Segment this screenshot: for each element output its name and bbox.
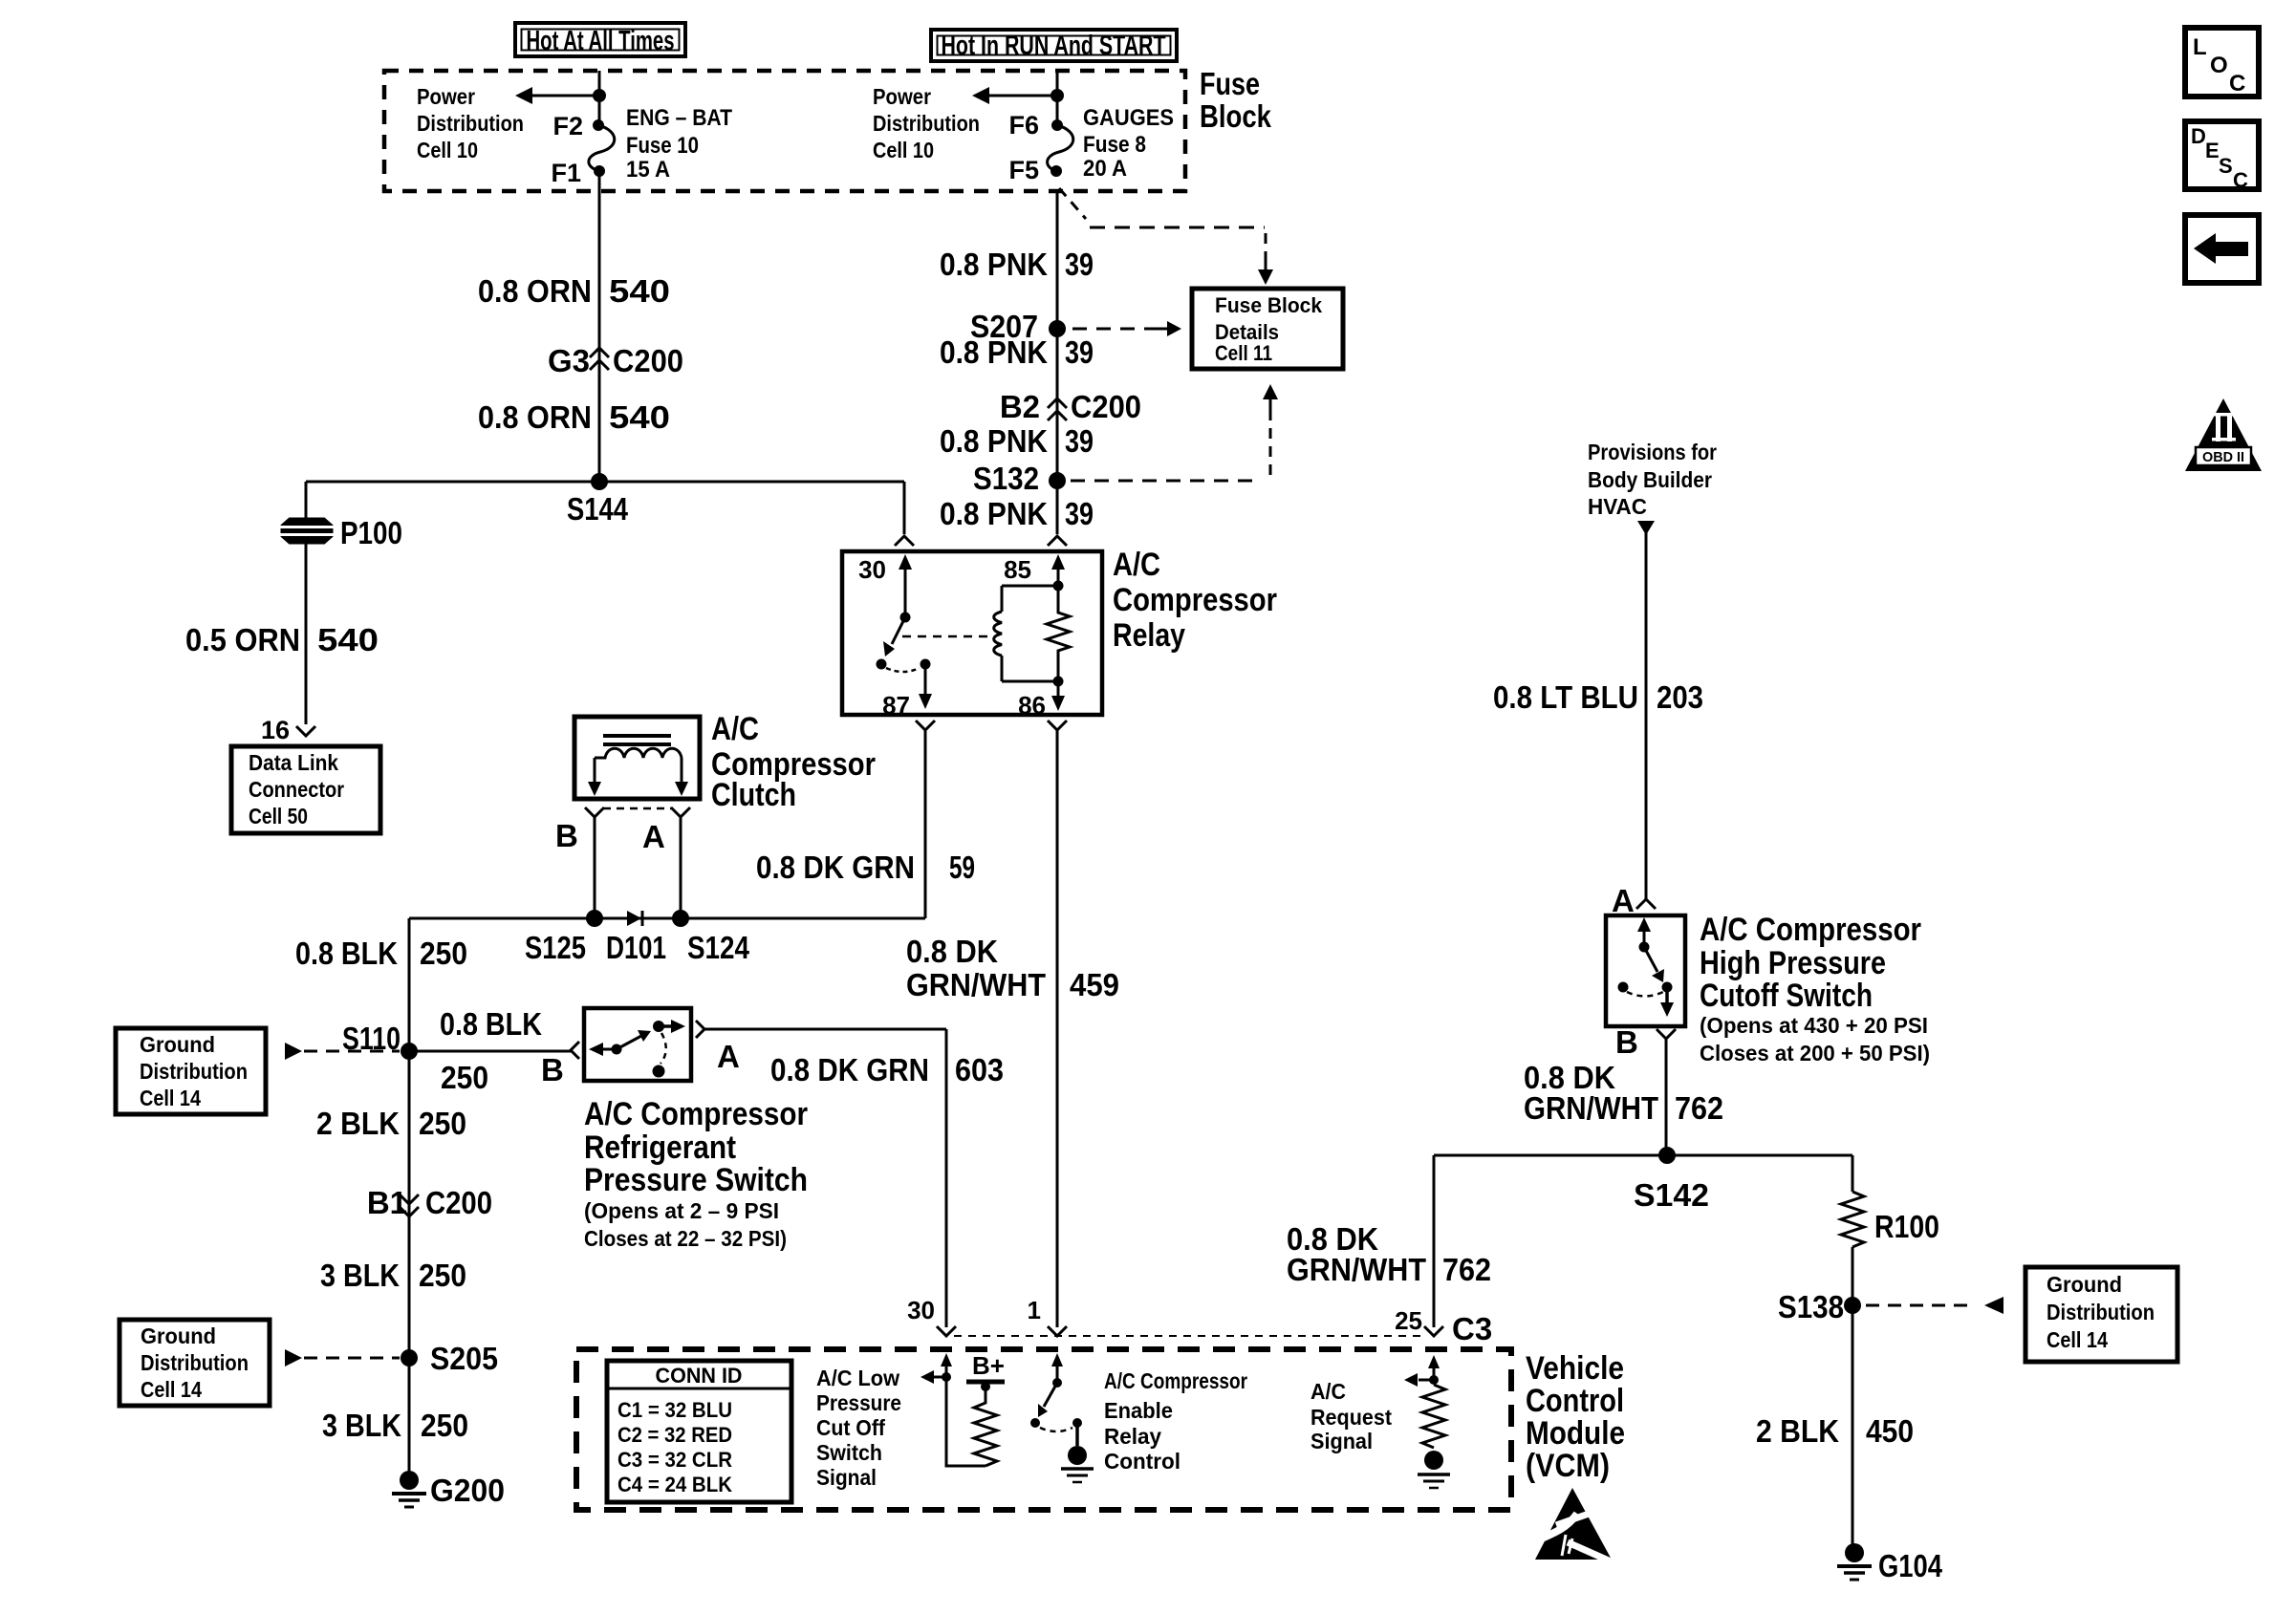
svg-text:87: 87	[882, 691, 910, 720]
svg-text:30: 30	[907, 1296, 935, 1324]
arrow to Power Distribution (left)	[515, 87, 599, 104]
ground G200	[392, 1471, 505, 1508]
svg-text:0.8 DK: 0.8 DK	[906, 934, 998, 969]
node: junction above F2	[593, 89, 606, 102]
svg-text:762: 762	[1675, 1090, 1723, 1126]
icon box DESC	[2185, 121, 2259, 192]
off-page triangle (body builder feed)	[1637, 521, 1655, 535]
svg-text:15 A: 15 A	[626, 157, 670, 183]
svg-text:C200: C200	[613, 343, 683, 378]
splice S207	[970, 309, 1066, 344]
dashed riser from S132 up into Fuse Block Details	[1071, 384, 1278, 481]
wire: S144 branch down to relay pin 30	[903, 482, 906, 534]
splice S125	[525, 910, 603, 965]
svg-text:Fuse 8: Fuse 8	[1083, 132, 1146, 158]
svg-text:S124: S124	[687, 930, 750, 965]
dashed alternate contact (relay control)	[1040, 1428, 1072, 1431]
svg-text:Cell 14: Cell 14	[141, 1377, 202, 1402]
svg-text:0.8 ORN: 0.8 ORN	[478, 273, 592, 309]
arrow to Power Distribution (right)	[972, 87, 1057, 104]
pin 30 (VCM)	[907, 1296, 956, 1336]
svg-text:1: 1	[1028, 1296, 1041, 1324]
ground G104	[1837, 1543, 1943, 1583]
relay contact at pin 87	[921, 659, 931, 670]
svg-text:C2 = 32 RED: C2 = 32 RED	[617, 1423, 732, 1447]
svg-text:A/C Low: A/C Low	[816, 1366, 899, 1390]
VCM dashed box	[576, 1349, 1511, 1510]
wire 0.5 ORN 540: P100 to DLC	[305, 543, 308, 724]
dashed alternate-contact arc	[886, 668, 920, 672]
svg-text:Cut Off: Cut Off	[816, 1415, 885, 1440]
svg-text:B: B	[541, 1052, 564, 1087]
svg-text:0.8 DK GRN: 0.8 DK GRN	[756, 850, 915, 885]
wire 459: relay 86 down to VCM pin 1	[1056, 730, 1059, 1327]
label A/C Request Signal	[1310, 1379, 1392, 1453]
svg-text:O: O	[2210, 53, 2228, 78]
svg-text:A/C: A/C	[1310, 1379, 1346, 1404]
svg-text:Relay: Relay	[1104, 1424, 1161, 1449]
svg-text:B: B	[555, 818, 578, 853]
svg-text:0.8 BLK: 0.8 BLK	[295, 936, 398, 971]
svg-text:Closes at 22 – 32 PSI): Closes at 22 – 32 PSI)	[584, 1226, 787, 1251]
svg-text:G3: G3	[548, 343, 590, 378]
svg-text:GAUGES: GAUGES	[1083, 105, 1174, 131]
svg-text:Data Link: Data Link	[249, 750, 338, 775]
wire: ground run S110-S125-S124-relay87	[409, 917, 925, 920]
label 0.8 PNK 39 (fourth)	[940, 496, 1094, 531]
svg-text:0.8 BLK: 0.8 BLK	[440, 1006, 542, 1042]
svg-text:39: 39	[1065, 334, 1094, 370]
svg-text:Signal: Signal	[816, 1465, 877, 1490]
relay pin 30	[858, 554, 912, 617]
svg-text:C4 = 24 BLK: C4 = 24 BLK	[617, 1473, 732, 1496]
box Ground Distribution Cell 14 (lower)	[119, 1320, 270, 1406]
svg-text:D101: D101	[606, 930, 666, 965]
svg-text:Refrigerant: Refrigerant	[584, 1130, 736, 1166]
label Vehicle Control Module (VCM)	[1526, 1350, 1625, 1484]
wire: S142 horizontal run	[1434, 1154, 1852, 1157]
connector C3 boundary (fine dashed)	[954, 1335, 1426, 1337]
connector chevron below relay pin 86	[1048, 721, 1067, 730]
label 0.8 ORN 540 (upper)	[478, 273, 670, 309]
svg-text:Connector: Connector	[249, 777, 344, 802]
svg-text:39: 39	[1065, 496, 1094, 531]
svg-text:0.8 PNK: 0.8 PNK	[940, 496, 1048, 531]
svg-text:S138: S138	[1778, 1289, 1844, 1324]
svg-text:HVAC: HVAC	[1588, 494, 1647, 519]
svg-text:P100: P100	[340, 515, 402, 550]
relay coil	[994, 586, 1058, 681]
svg-text:C: C	[2229, 71, 2245, 97]
node: coil bottom at pin 86	[1053, 677, 1064, 687]
svg-text:A/C Compressor: A/C Compressor	[584, 1096, 808, 1132]
dashed alternate contact arc (pressure switch)	[661, 1033, 666, 1064]
dashed connector tie B-A	[603, 807, 672, 810]
svg-text:Signal: Signal	[1310, 1429, 1373, 1453]
svg-text:250: 250	[419, 1258, 466, 1293]
svg-text:39: 39	[1065, 247, 1094, 282]
relay switch common pivot	[900, 613, 911, 623]
svg-text:S144: S144	[567, 491, 629, 527]
label 0.8 ORN 540 (lower)	[478, 399, 670, 435]
svg-text:Closes at 200 + 50 PSI): Closes at 200 + 50 PSI)	[1700, 1041, 1930, 1065]
svg-text:16: 16	[261, 716, 290, 744]
wire 250: down the left ground column	[408, 918, 411, 1480]
label "Fuse Block"	[1200, 66, 1272, 134]
label 0.8 DK GRN/WHT 762 (upper)	[1524, 1060, 1723, 1126]
svg-text:Cutoff Switch: Cutoff Switch	[1700, 978, 1873, 1014]
dashed alternate contact arc (high pressure switch)	[1627, 992, 1663, 997]
svg-text:D: D	[2191, 124, 2206, 148]
svg-text:B+: B+	[972, 1351, 1005, 1380]
node: junction above F6	[1051, 89, 1064, 102]
diode D101	[606, 911, 666, 965]
svg-text:Vehicle: Vehicle	[1526, 1350, 1624, 1387]
wire 39: fuse F5 to relay pin 85	[1056, 190, 1059, 534]
svg-text:A: A	[717, 1039, 740, 1074]
connector chevron at high pressure switch B	[1657, 1029, 1676, 1039]
svg-text:GRN/WHT: GRN/WHT	[1524, 1090, 1658, 1126]
svg-text:A/C: A/C	[711, 711, 759, 747]
svg-text:C200: C200	[425, 1185, 492, 1220]
svg-text:A/C Compressor: A/C Compressor	[1104, 1368, 1247, 1393]
svg-text:GRN/WHT: GRN/WHT	[906, 967, 1046, 1002]
svg-text:Distribution: Distribution	[2047, 1300, 2155, 1324]
label 0.8 DK GRN 603	[770, 1052, 1004, 1087]
svg-text:Distribution: Distribution	[417, 111, 524, 136]
VCM relay control output circuit	[1030, 1353, 1063, 1428]
label 0.5 ORN 540	[185, 622, 379, 657]
svg-text:Body Builder: Body Builder	[1588, 467, 1712, 492]
wire: S110 to pressure switch pin B	[409, 1050, 572, 1053]
dashed actuation link switch-to-coil	[902, 635, 994, 638]
svg-text:S205: S205	[430, 1341, 498, 1376]
svg-text:Cell 14: Cell 14	[140, 1086, 201, 1110]
svg-text:B1: B1	[367, 1185, 407, 1220]
connector C200 pin B2	[1000, 389, 1141, 424]
svg-text:Cell 10: Cell 10	[873, 138, 934, 162]
VCM A/C request input circuit	[1404, 1355, 1450, 1488]
svg-text:86: 86	[1018, 691, 1046, 720]
svg-text:459: 459	[1070, 967, 1119, 1002]
wire: S142 down to R100	[1852, 1155, 1854, 1192]
svg-text:S142: S142	[1634, 1177, 1709, 1213]
box Fuse Block Details Cell 11	[1192, 289, 1343, 369]
fuse block dashed box	[384, 71, 1185, 191]
wire 603: pressure switch A to VCM pin 30	[704, 1029, 946, 1327]
splice S142	[1634, 1147, 1709, 1213]
svg-text:Block: Block	[1200, 98, 1272, 134]
relay pin 86	[1018, 681, 1065, 720]
svg-text:Control: Control	[1104, 1449, 1180, 1474]
label 0.8 BLK 250 (upper)	[295, 936, 467, 971]
wire 59: relay 87 down to S124 junction run	[924, 730, 927, 918]
icon OBD II triangle	[2185, 398, 2262, 471]
dashed arrow S207 to Fuse Block Details	[1072, 321, 1181, 336]
svg-text:A: A	[1612, 883, 1635, 918]
svg-text:CONN ID: CONN ID	[656, 1364, 743, 1388]
label A/C Low Pressure Cut Off Switch Signal	[816, 1366, 901, 1490]
svg-text:Cell 10: Cell 10	[417, 138, 478, 162]
svg-text:F6: F6	[1008, 111, 1039, 140]
svg-text:450: 450	[1866, 1413, 1914, 1449]
svg-text:L: L	[2193, 34, 2207, 60]
relay switch arm (movable contact)	[883, 617, 905, 656]
svg-text:C3 = 32 CLR: C3 = 32 CLR	[617, 1448, 732, 1472]
connector chevron below relay pin 87	[916, 721, 935, 730]
connector chevron at relay pin 85 feed	[1048, 536, 1067, 546]
relay box A/C Compressor Relay	[842, 551, 1102, 715]
svg-text:2 BLK: 2 BLK	[316, 1106, 400, 1141]
svg-text:S: S	[2219, 154, 2233, 178]
svg-text:250: 250	[419, 1106, 466, 1141]
splice S110	[342, 1021, 418, 1060]
label Power Distribution Cell 10 (right)	[873, 84, 980, 162]
svg-text:C200: C200	[1071, 389, 1141, 424]
svg-text:25: 25	[1395, 1306, 1422, 1335]
svg-text:C3: C3	[1452, 1311, 1492, 1346]
internal ground (relay control)	[1061, 1418, 1094, 1482]
svg-text:Ground: Ground	[2047, 1272, 2122, 1297]
label 0.8 PNK 39 (first)	[940, 247, 1094, 282]
dashed arrow from Ground Distribution to S205	[285, 1349, 400, 1367]
svg-text:Hot In RUN And START: Hot In RUN And START	[942, 31, 1166, 61]
svg-text:Hot At All Times: Hot At All Times	[527, 26, 675, 56]
wire: S144 horizontal run	[306, 481, 904, 484]
svg-text:(Opens at 430 + 20 PSI: (Opens at 430 + 20 PSI	[1700, 1013, 1928, 1038]
label A/C Compressor Refrigerant Pressure Switch	[584, 1096, 808, 1251]
svg-text:A: A	[642, 819, 665, 854]
svg-text:S132: S132	[973, 461, 1039, 496]
svg-text:OBD II: OBD II	[2202, 449, 2244, 465]
box A/C Compressor Clutch	[574, 717, 700, 799]
clutch terminal A arrow	[675, 758, 688, 796]
label 0.8 PNK 39 (third)	[940, 423, 1094, 459]
label 3 BLK 250 (upper)	[320, 1258, 466, 1293]
label A/C Compressor Clutch	[711, 711, 876, 813]
pressure switch lower contact	[653, 1065, 665, 1078]
svg-text:3 BLK: 3 BLK	[322, 1408, 401, 1443]
svg-text:Pressure Switch: Pressure Switch	[584, 1162, 808, 1198]
label 0.8 DK GRN/WHT 762 (lower)	[1287, 1221, 1491, 1287]
label 0.8 DK GRN/WHT 459	[906, 934, 1119, 1002]
svg-text:0.8 PNK: 0.8 PNK	[940, 423, 1048, 459]
svg-text:GRN/WHT: GRN/WHT	[1287, 1252, 1426, 1287]
label box "Hot In RUN And START"	[931, 30, 1177, 61]
label 2 BLK 450	[1756, 1413, 1914, 1449]
dashed arrow from S138 to Ground Distribution	[1866, 1297, 2004, 1314]
svg-text:603: 603	[955, 1052, 1004, 1087]
svg-text:B2: B2	[1000, 389, 1040, 424]
svg-text:Distribution: Distribution	[873, 111, 980, 136]
svg-text:250: 250	[421, 1408, 468, 1443]
CONN ID table	[607, 1361, 791, 1502]
svg-text:A/C Compressor: A/C Compressor	[1700, 912, 1921, 948]
svg-text:R100: R100	[1874, 1209, 1939, 1244]
svg-text:(VCM): (VCM)	[1526, 1448, 1610, 1484]
in-line connector P100	[280, 515, 402, 550]
svg-text:Relay: Relay	[1113, 617, 1185, 654]
svg-text:59: 59	[949, 850, 975, 885]
label 0.8 LT BLU 203	[1493, 679, 1703, 715]
splice S132	[973, 461, 1066, 496]
box Ground Distribution Cell 14 (right)	[2025, 1267, 2177, 1362]
svg-text:E: E	[2205, 139, 2220, 162]
svg-text:3 BLK: 3 BLK	[320, 1258, 400, 1293]
relay contact (NC side)	[877, 659, 887, 670]
svg-text:High Pressure: High Pressure	[1700, 945, 1886, 981]
connector chevron at high pressure switch A	[1636, 899, 1656, 909]
pin 25 (VCM)	[1395, 1306, 1443, 1336]
svg-text:540: 540	[609, 273, 670, 309]
svg-text:Enable: Enable	[1104, 1398, 1173, 1423]
svg-text:Power: Power	[417, 84, 475, 109]
label box "Hot At All Times"	[515, 23, 685, 56]
label 0.8 PNK 39 (second)	[940, 334, 1094, 370]
svg-text:Fuse: Fuse	[1200, 66, 1260, 101]
svg-text:G200: G200	[430, 1473, 505, 1508]
svg-text:C: C	[2233, 168, 2248, 192]
label A/C Compressor Relay	[1113, 547, 1277, 654]
pressure switch contact arm	[589, 1020, 685, 1056]
fuse F8 GAUGES 20 A	[1008, 105, 1174, 184]
svg-text:Cell 14: Cell 14	[2047, 1327, 2108, 1352]
box Data Link Connector Cell 50	[231, 746, 380, 833]
connector chevron clutch pin B	[585, 807, 604, 817]
svg-text:A/C: A/C	[1113, 547, 1160, 583]
svg-text:F2: F2	[552, 112, 583, 140]
svg-text:30: 30	[858, 555, 886, 584]
VCM low pressure input circuit	[921, 1353, 1005, 1466]
clutch plates	[603, 736, 671, 744]
svg-text:Provisions for: Provisions for	[1588, 440, 1717, 464]
connector chevron at pressure switch A	[696, 1021, 704, 1038]
relay internal resistor	[1047, 586, 1070, 681]
svg-text:250: 250	[441, 1060, 488, 1095]
wire 203: down to high pressure cutoff switch A	[1645, 532, 1648, 899]
resistor R100	[1841, 1192, 1939, 1247]
svg-text:0.8 LT BLU: 0.8 LT BLU	[1493, 679, 1638, 715]
svg-text:250: 250	[420, 936, 467, 971]
svg-text:Fuse Block: Fuse Block	[1215, 293, 1323, 317]
node: coil top at pin 85	[1053, 581, 1064, 592]
high pressure switch output arrow to B	[1660, 987, 1674, 1017]
label 0.8 DK GRN 59	[756, 850, 975, 885]
clutch coil	[595, 748, 682, 758]
connector chevron clutch pin A	[671, 807, 690, 817]
svg-text:Compressor: Compressor	[1113, 582, 1277, 618]
svg-text:Cell 11: Cell 11	[1215, 341, 1272, 365]
wire 450: R100 down to G104	[1852, 1247, 1854, 1546]
splice S138	[1778, 1289, 1861, 1324]
svg-text:0.8 ORN: 0.8 ORN	[478, 399, 592, 435]
svg-text:39: 39	[1065, 423, 1094, 459]
svg-text:S125: S125	[525, 930, 586, 965]
svg-text:B: B	[1615, 1024, 1638, 1060]
wire: battery feed into fuse F10	[598, 71, 601, 125]
label A/C Compressor Enable Relay Control	[1104, 1368, 1247, 1474]
svg-text:ENG – BAT: ENG – BAT	[626, 105, 732, 131]
dashed arrow from Ground Distribution to S110	[285, 1043, 400, 1060]
svg-text:762: 762	[1442, 1252, 1491, 1287]
svg-text:F1: F1	[551, 159, 581, 187]
svg-text:G104: G104	[1878, 1548, 1943, 1583]
svg-text:Switch: Switch	[816, 1440, 882, 1465]
svg-text:Ground: Ground	[141, 1323, 216, 1348]
connector C200 pin B1	[367, 1185, 492, 1220]
pin 16 into Data Link Connector	[261, 716, 315, 744]
svg-text:0.5 ORN: 0.5 ORN	[185, 622, 300, 657]
svg-text:203: 203	[1657, 679, 1703, 715]
label A/C Compressor High Pressure Cutoff Switch	[1700, 912, 1930, 1065]
svg-text:540: 540	[609, 399, 670, 435]
svg-text:Power: Power	[873, 84, 931, 109]
dashed reference path from F5 to Fuse Block Details	[1059, 188, 1273, 285]
svg-text:F5: F5	[1008, 156, 1039, 184]
splice S124	[672, 910, 750, 965]
svg-text:Ground: Ground	[140, 1032, 215, 1057]
connector chevron at relay pin 30 feed	[895, 536, 914, 546]
svg-text:0.8 PNK: 0.8 PNK	[940, 334, 1048, 370]
box A/C Compressor High Pressure Cutoff Switch	[1606, 915, 1685, 1026]
svg-text:Clutch: Clutch	[711, 777, 796, 813]
svg-text:Control: Control	[1526, 1383, 1624, 1419]
wire: S144 down to P100	[305, 482, 308, 521]
svg-text:(Opens at 2 – 9 PSI: (Opens at 2 – 9 PSI	[584, 1198, 779, 1223]
svg-text:85: 85	[1004, 555, 1031, 584]
label 2 BLK 250	[316, 1106, 466, 1141]
label Provisions for Body Builder HVAC	[1588, 440, 1717, 519]
box Ground Distribution Cell 14 (upper)	[116, 1028, 266, 1114]
connector chevron at pressure switch B	[571, 1042, 579, 1059]
svg-text:540: 540	[317, 622, 379, 657]
label 3 BLK 250 (lower)	[322, 1408, 468, 1443]
splice S144	[567, 473, 629, 527]
svg-text:Cell 50: Cell 50	[249, 804, 308, 829]
svg-text:2 BLK: 2 BLK	[1756, 1413, 1839, 1449]
icon box LOC	[2185, 28, 2259, 97]
ESD sensitivity symbol	[1530, 1488, 1619, 1565]
wire 762: switch B down to S142	[1665, 1039, 1668, 1155]
svg-text:Request: Request	[1310, 1405, 1392, 1430]
svg-text:0.8 DK GRN: 0.8 DK GRN	[770, 1052, 929, 1087]
relay pin 87	[882, 664, 932, 720]
splice S205	[401, 1341, 498, 1376]
wire 762: S142 down to VCM pin 25	[1433, 1155, 1436, 1327]
svg-text:Fuse 10: Fuse 10	[626, 133, 699, 159]
svg-text:Distribution: Distribution	[141, 1350, 249, 1375]
relay pin 85	[1004, 554, 1065, 586]
svg-text:Distribution: Distribution	[140, 1059, 248, 1084]
clutch terminal B arrow	[588, 758, 601, 796]
wire: clutch B to S125	[594, 817, 596, 918]
high pressure switch arm	[1618, 917, 1673, 993]
svg-text:Module: Module	[1526, 1415, 1625, 1452]
icon box back-arrow	[2185, 215, 2259, 283]
connector C200 pin G3	[548, 343, 683, 378]
fuse F10 ENG-BAT 15 A	[551, 105, 732, 187]
svg-text:C1 = 32 BLU: C1 = 32 BLU	[617, 1398, 732, 1422]
svg-text:Pressure: Pressure	[816, 1390, 901, 1415]
wire: ignition feed into fuse F8	[1056, 71, 1059, 125]
svg-text:0.8 PNK: 0.8 PNK	[940, 247, 1048, 282]
wire 540: fuse F1 to splice S144	[598, 171, 601, 482]
svg-text:20 A: 20 A	[1083, 156, 1127, 182]
pin 1 (VCM)	[1028, 1296, 1067, 1336]
wire: clutch A to S124	[680, 817, 682, 918]
label Power Distribution Cell 10 (left)	[417, 84, 524, 162]
box A/C Compressor Refrigerant Pressure Switch	[584, 1008, 691, 1081]
